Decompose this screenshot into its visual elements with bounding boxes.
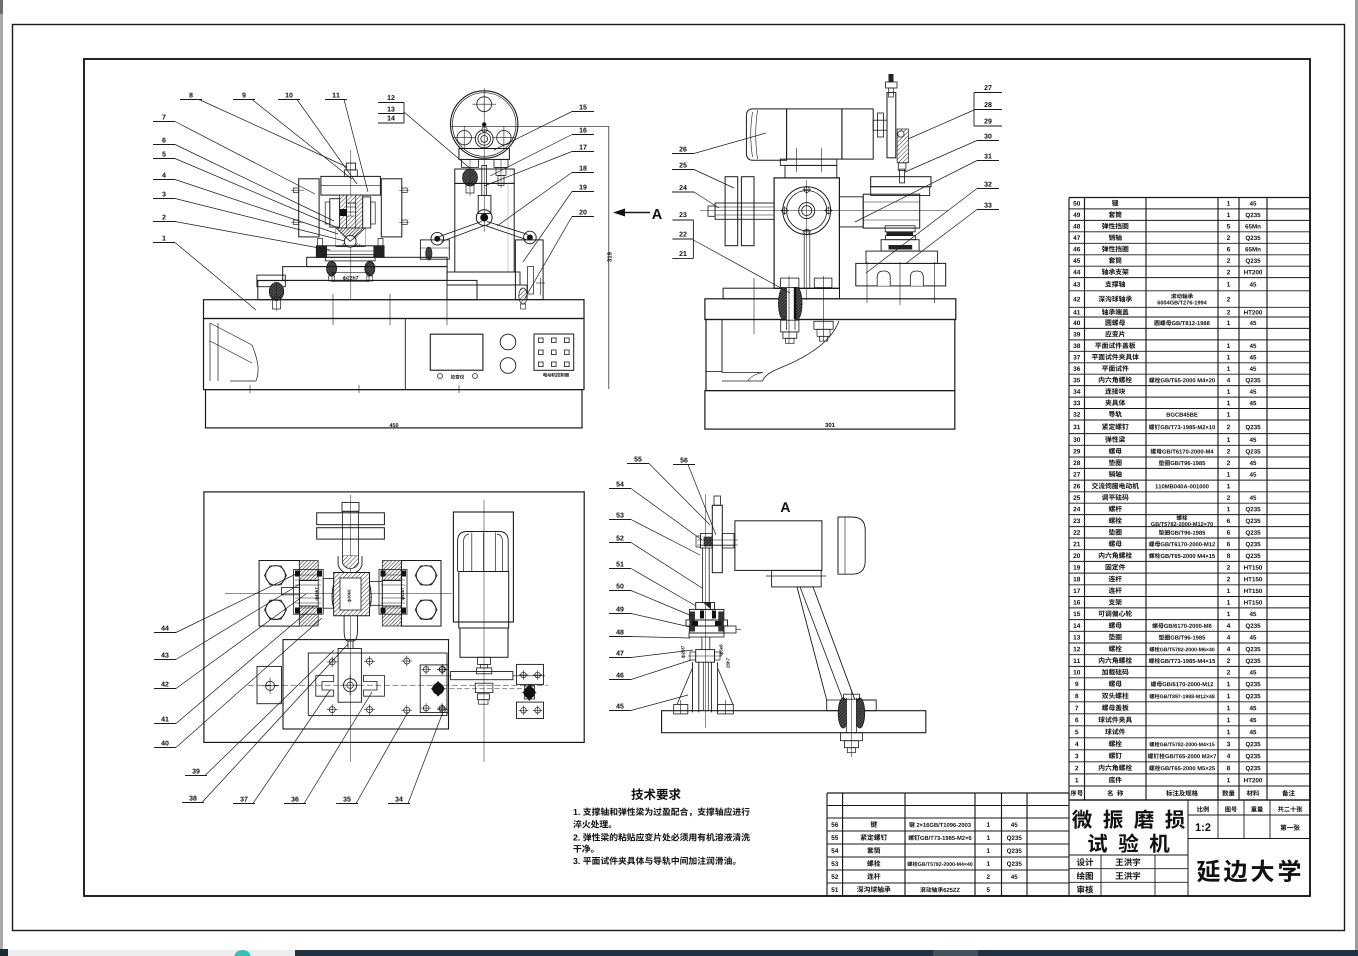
balloon 6 <box>162 138 165 143</box>
A view motor <box>735 521 822 571</box>
left side plate <box>330 199 340 227</box>
center slider column <box>338 649 361 703</box>
A view disc edge <box>712 505 722 572</box>
U spring arc <box>338 556 362 574</box>
balloon 33 <box>984 203 987 208</box>
left roller <box>431 232 444 245</box>
eccentric disc <box>887 93 896 158</box>
balloon 20 <box>579 210 582 215</box>
belt lines <box>803 233 805 288</box>
stand base steps <box>447 272 520 285</box>
technical requirements text <box>631 788 643 800</box>
balloon 18 <box>580 166 583 171</box>
panel knobs <box>500 334 516 350</box>
clamp top bolt <box>346 163 355 170</box>
base left leg detail <box>210 323 252 345</box>
plan motor front housing <box>460 628 508 657</box>
balloon 7 <box>162 115 165 120</box>
plan motor body <box>459 572 509 629</box>
rail block side <box>856 263 946 286</box>
anchor bolt left <box>269 283 283 301</box>
ball clamp block <box>881 240 919 251</box>
balloon 16 <box>580 128 583 133</box>
A view bearing housing <box>689 609 724 620</box>
front view main view <box>483 88 485 232</box>
balloon 1 <box>162 236 165 241</box>
right bearing hatch <box>382 561 401 581</box>
beam top clamp <box>342 502 359 511</box>
A view label <box>781 502 790 512</box>
A view motor mount <box>772 570 822 587</box>
A view top plate of bearing <box>696 603 715 610</box>
balloon 2 <box>162 215 165 220</box>
right screen edge strip <box>1355 0 1358 950</box>
balloon 17 <box>580 145 583 150</box>
left small block <box>257 666 282 703</box>
center hub ball area <box>332 573 371 616</box>
balloon 56 <box>680 458 683 463</box>
balloon 40 <box>161 741 165 746</box>
balloon 39 <box>192 769 195 774</box>
BOM parts list table <box>1069 197 1310 199</box>
balloon 49 <box>616 607 620 612</box>
title block <box>1069 799 1310 801</box>
spindle hatched block <box>340 195 347 228</box>
balloon 47 <box>616 651 620 656</box>
right V arm <box>487 222 528 235</box>
base top band <box>204 300 585 319</box>
balloon 34 <box>395 797 398 802</box>
platform plate1 <box>307 257 447 266</box>
dim f22h7 <box>343 276 347 281</box>
balloon 45 <box>616 704 620 709</box>
right roller <box>524 231 537 244</box>
plan crank bar <box>451 672 513 680</box>
control panel screen <box>430 334 483 370</box>
A view anchor bolt <box>838 698 848 728</box>
upright side tabs <box>293 188 298 192</box>
left bearing stack <box>293 570 323 615</box>
balloon 9 <box>242 93 245 98</box>
plan motor mount plate <box>453 512 513 622</box>
A view bracket gusset <box>797 587 876 711</box>
screw stack under arm <box>885 226 915 232</box>
balloon 35 <box>343 797 346 802</box>
right bearing plate <box>401 561 441 627</box>
clamp base plate <box>316 246 384 257</box>
balloon 5 <box>162 152 165 157</box>
neck flex beam <box>344 616 357 641</box>
balloons 12 13 14 box <box>388 95 391 100</box>
A view feet <box>674 705 688 714</box>
balloon 15 <box>580 105 583 110</box>
left bolt with seal <box>462 159 479 167</box>
side view <box>700 210 948 212</box>
A view base plate <box>662 711 926 733</box>
V block specimen holder <box>336 228 365 247</box>
lower slide plate outer <box>283 640 449 729</box>
inner drawing frame <box>84 59 1310 896</box>
left upright <box>299 179 319 237</box>
wheel bracket <box>459 149 510 160</box>
plan view <box>204 492 584 743</box>
side base bottom band <box>705 391 955 430</box>
base tick marks <box>332 294 334 325</box>
balloon 41 <box>161 717 165 722</box>
right upright <box>381 179 402 237</box>
coupler blocks <box>475 683 493 692</box>
plate bolt crosses <box>329 659 335 665</box>
wide block <box>866 251 938 263</box>
left V arm <box>440 222 482 237</box>
A view <box>705 494 707 728</box>
upper specimen platform <box>871 177 931 187</box>
main gear block <box>774 178 839 289</box>
balloon 30 <box>984 134 987 139</box>
roller bearings under clamp <box>327 261 337 275</box>
university name <box>1197 860 1220 883</box>
wheel dial <box>451 91 518 158</box>
dim 319 line <box>608 126 610 389</box>
balloon 44 <box>161 626 165 631</box>
balloon 52 <box>616 536 619 541</box>
mount plate <box>325 255 375 261</box>
side base main <box>706 320 955 391</box>
crank left block <box>420 665 448 713</box>
balloon 19 <box>580 185 583 190</box>
side tick lines <box>753 278 755 334</box>
balloon 25 <box>679 163 682 168</box>
clamp top plate <box>321 176 381 195</box>
balloon 50 <box>616 584 619 589</box>
balloon 42 <box>161 682 165 687</box>
side base sub plate <box>723 288 839 299</box>
left bearing plate <box>259 561 299 627</box>
lower slide plate inner <box>308 653 447 716</box>
stand column <box>455 183 514 272</box>
panel small circles <box>438 374 443 379</box>
balloon 8 <box>189 93 192 98</box>
shaft stub <box>873 120 887 130</box>
left roller block <box>420 240 449 259</box>
plan motor fan cover <box>458 532 509 572</box>
left screen edge strip <box>0 0 3 950</box>
dim 450 <box>389 423 392 427</box>
balloon 11 <box>333 93 336 98</box>
crank left joint <box>431 681 445 697</box>
balloon 53 <box>616 513 619 518</box>
balloon 24 <box>679 185 682 190</box>
balloon 31 <box>984 154 987 159</box>
balloon 36 <box>291 797 294 802</box>
balloon 4 <box>162 173 166 178</box>
U clamp jaws <box>316 675 334 696</box>
connecting link <box>897 129 908 163</box>
A view legs <box>692 662 694 712</box>
platform plate2 <box>283 267 447 281</box>
A view shaft <box>702 548 704 603</box>
balloon 55 <box>634 457 637 462</box>
balloon 26 <box>679 147 682 152</box>
A direction arrow <box>622 212 650 214</box>
base bottom band <box>206 390 583 428</box>
shaft segments <box>323 578 334 608</box>
sub base <box>258 280 477 299</box>
balloon 54 <box>616 482 619 487</box>
A view lower shaft <box>701 637 703 650</box>
balloons 27 28 29 box <box>984 85 987 90</box>
balloon 46 <box>616 673 620 678</box>
balloon 51 <box>616 562 619 567</box>
balloon 32 <box>984 182 987 187</box>
center rod <box>482 165 487 195</box>
right bolt <box>494 159 508 167</box>
small parts table 51-56 <box>827 792 1069 794</box>
motor side <box>746 109 786 160</box>
A view lower block <box>696 650 715 663</box>
coupling discs <box>725 177 738 246</box>
balloon 48 <box>616 630 620 635</box>
flange circles <box>783 187 831 235</box>
second bolt <box>814 321 833 329</box>
plan motor shaft <box>478 657 491 664</box>
bearing axis centerline <box>225 593 333 595</box>
right arm <box>839 197 863 227</box>
A view dims <box>681 646 685 658</box>
left input shaft <box>715 203 774 219</box>
bottom taskbar strips <box>0 949 8 956</box>
balloon 10 <box>286 93 289 98</box>
right side plate <box>363 197 371 228</box>
side base top plate <box>705 299 956 320</box>
A view hub parts <box>700 534 712 549</box>
balloons 21 22 23 box <box>679 212 682 217</box>
balloon 38 <box>189 796 192 801</box>
base mid band <box>204 319 585 390</box>
balloon 37 <box>240 797 243 802</box>
side anchor bolts <box>779 288 789 320</box>
right stand block <box>515 240 543 300</box>
balloon 43 <box>161 653 165 658</box>
right bearing stack <box>379 570 407 615</box>
motor mount <box>780 159 837 165</box>
crank right block <box>517 664 544 684</box>
stand top plate <box>455 169 514 183</box>
left step block <box>257 275 285 287</box>
panel button grid <box>534 334 574 370</box>
pivot joint <box>476 210 492 226</box>
left probe rod <box>282 587 300 594</box>
block foot pads <box>781 278 799 288</box>
left bearing hatch <box>299 561 318 581</box>
balloon 3 <box>162 192 165 197</box>
